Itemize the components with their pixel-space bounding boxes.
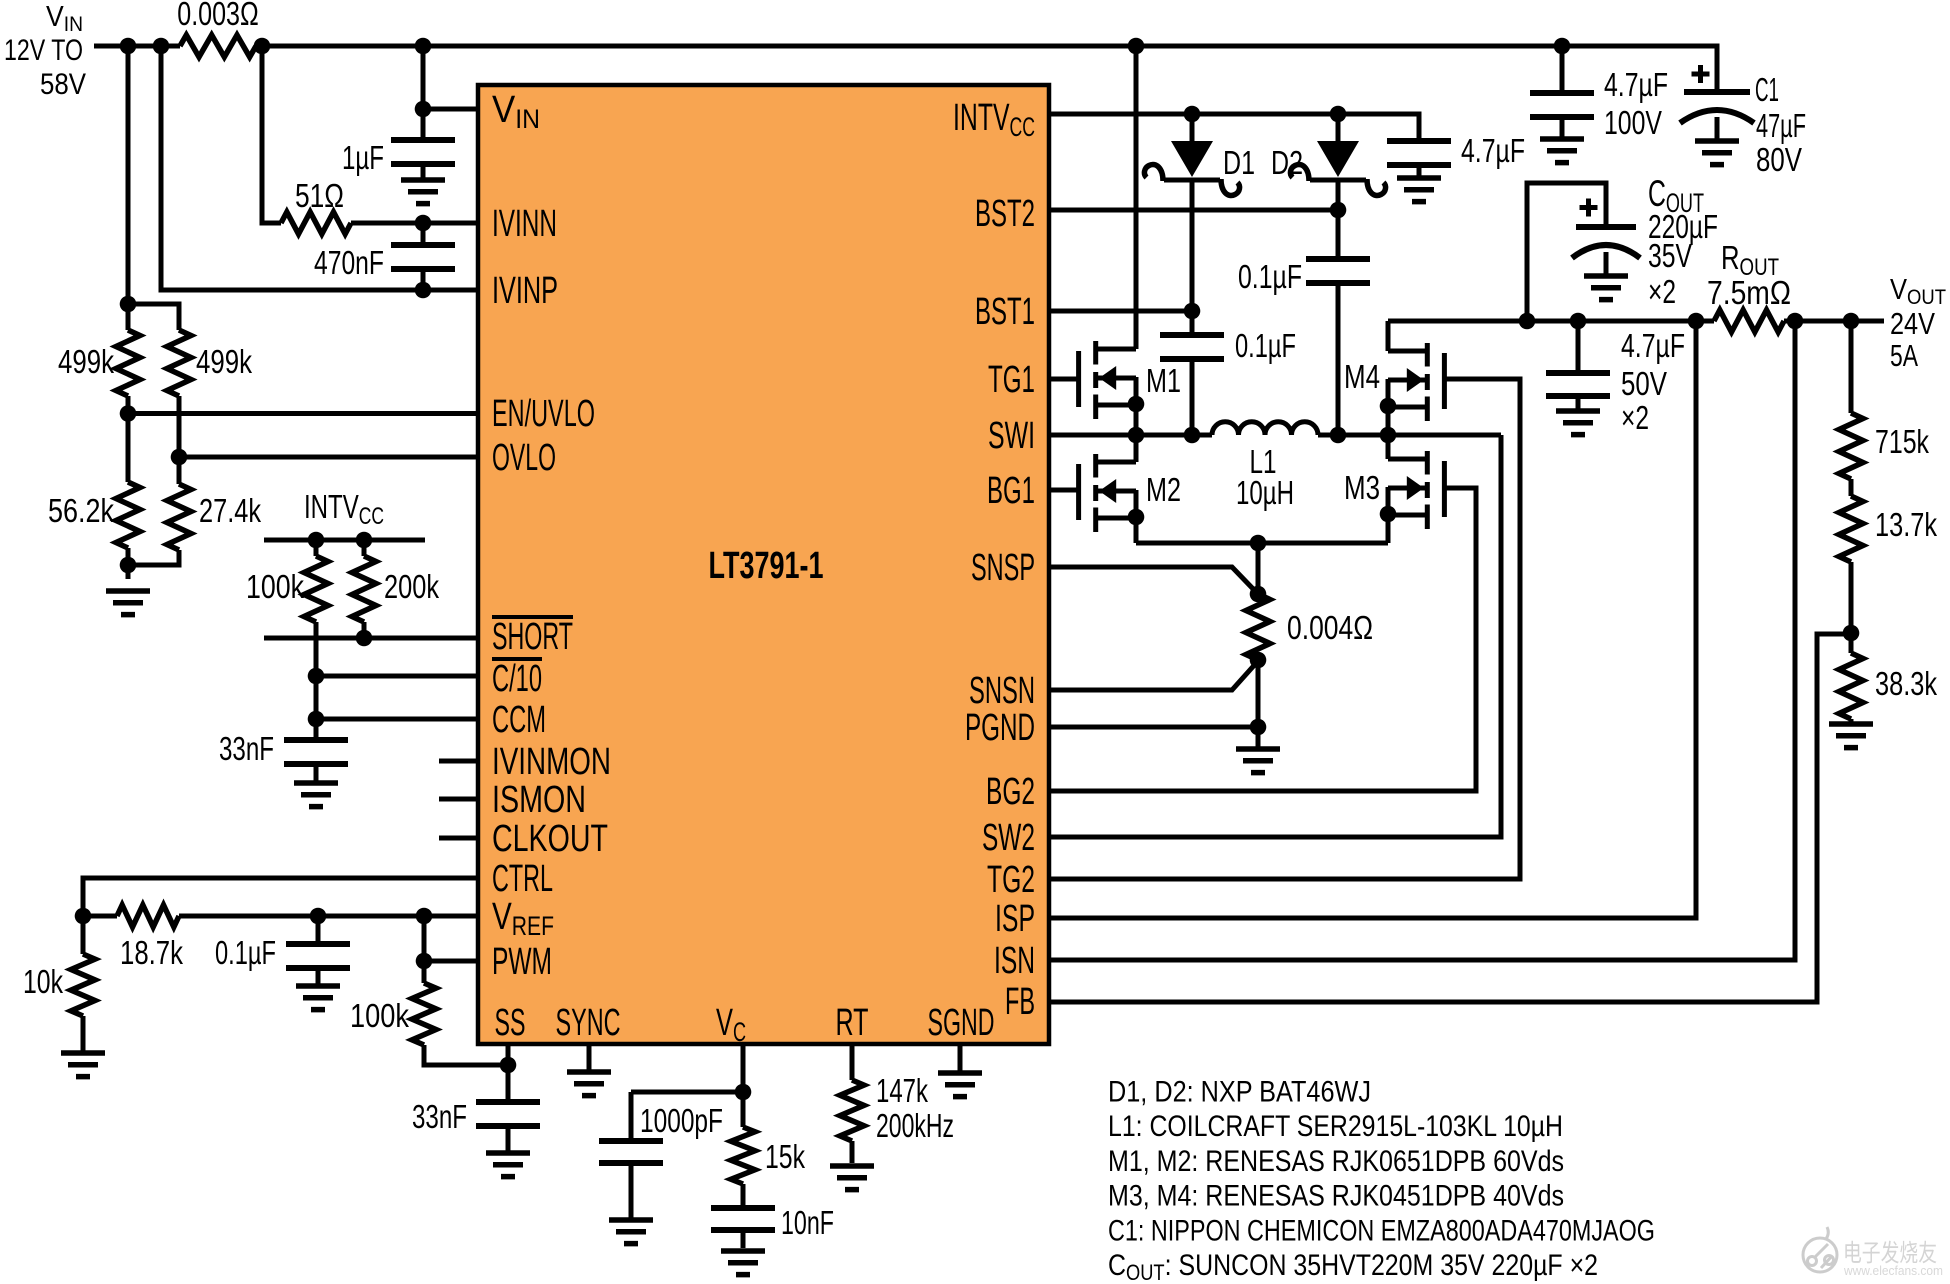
svg-text:499k: 499k xyxy=(196,343,252,380)
svg-text:M3, M4: RENESAS RJK0451DPB 40V: M3, M4: RENESAS RJK0451DPB 40Vds xyxy=(1108,1180,1564,1213)
svg-text:33nF: 33nF xyxy=(412,1098,467,1135)
svg-text:BST1: BST1 xyxy=(975,291,1035,333)
svg-text:ISP: ISP xyxy=(995,898,1035,940)
svg-text:0.1µF: 0.1µF xyxy=(215,934,276,971)
svg-text:BST2: BST2 xyxy=(975,193,1035,235)
svg-text:BG2: BG2 xyxy=(986,771,1035,813)
svg-text:L1: COILCRAFT SER2915L-103KL 1: L1: COILCRAFT SER2915L-103KL 10µH xyxy=(1108,1110,1563,1143)
svg-text:5A: 5A xyxy=(1890,338,1918,373)
svg-text:D2: D2 xyxy=(1271,144,1303,181)
svg-text:56.2k: 56.2k xyxy=(48,492,114,529)
svg-text:SYNC: SYNC xyxy=(556,1002,621,1044)
svg-text:COUT​: SUNCON 35HVT220M 35V 22: COUT​: SUNCON 35HVT220M 35V 220µF ×2 xyxy=(1108,1249,1598,1284)
svg-text:10nF: 10nF xyxy=(781,1204,834,1241)
svg-text:M4: M4 xyxy=(1344,358,1380,395)
svg-text:10µH: 10µH xyxy=(1236,474,1294,511)
svg-text:4.7µF: 4.7µF xyxy=(1461,132,1525,169)
svg-text:715k: 715k xyxy=(1875,423,1929,460)
svg-text:35V: 35V xyxy=(1648,237,1692,274)
svg-text:www.elecfans.com: www.elecfans.com xyxy=(1843,1263,1943,1278)
svg-text:SW2: SW2 xyxy=(982,817,1035,859)
svg-text:12V TO: 12V TO xyxy=(4,34,83,67)
svg-text:200kHz: 200kHz xyxy=(876,1107,954,1144)
svg-text:SNSP: SNSP xyxy=(971,547,1035,589)
svg-text:7.5mΩ: 7.5mΩ xyxy=(1707,274,1791,311)
svg-text:100V: 100V xyxy=(1604,104,1662,141)
svg-text:C1: NIPPON CHEMICON EMZA800ADA: C1: NIPPON CHEMICON EMZA800ADA470MJAOG xyxy=(1108,1214,1655,1247)
svg-text:IVINP: IVINP xyxy=(492,270,558,312)
svg-text:1000pF: 1000pF xyxy=(640,1102,723,1139)
svg-text:15k: 15k xyxy=(765,1138,805,1175)
svg-text:M2: M2 xyxy=(1146,471,1181,508)
svg-text:CCM: CCM xyxy=(492,699,546,741)
svg-text:FB: FB xyxy=(1005,981,1035,1023)
svg-text:TG1: TG1 xyxy=(988,359,1035,401)
svg-text:OVLO: OVLO xyxy=(492,437,556,479)
svg-text:C1: C1 xyxy=(1755,71,1779,108)
svg-text:SS: SS xyxy=(495,1002,526,1044)
svg-text:0.1µF: 0.1µF xyxy=(1235,327,1296,364)
svg-text:10k: 10k xyxy=(23,963,63,1000)
svg-text:RT: RT xyxy=(836,1002,869,1044)
svg-text:200k: 200k xyxy=(384,568,439,605)
svg-text:1µF: 1µF xyxy=(342,139,384,176)
svg-text:CLKOUT: CLKOUT xyxy=(492,818,608,860)
svg-text:33nF: 33nF xyxy=(219,730,274,767)
svg-text:147k: 147k xyxy=(876,1072,928,1109)
svg-text:51Ω: 51Ω xyxy=(295,177,344,214)
svg-text:18.7k: 18.7k xyxy=(120,934,183,971)
svg-text:LT3791-1: LT3791-1 xyxy=(709,545,824,587)
svg-text:47µF: 47µF xyxy=(1756,107,1806,144)
svg-text:PGND: PGND xyxy=(965,707,1035,749)
svg-text:ISMON: ISMON xyxy=(492,779,586,821)
svg-text:IVINMON: IVINMON xyxy=(492,741,611,783)
svg-text:BG1: BG1 xyxy=(987,470,1035,512)
svg-text:D1: D1 xyxy=(1223,144,1255,181)
svg-text:SGND: SGND xyxy=(928,1002,995,1044)
svg-text:EN/UVLO: EN/UVLO xyxy=(492,393,595,435)
svg-text:M3: M3 xyxy=(1344,469,1380,506)
svg-text:0.003Ω: 0.003Ω xyxy=(177,0,259,32)
svg-text:C/10: C/10 xyxy=(492,658,542,700)
svg-text:D1, D2: NXP BAT46WJ: D1, D2: NXP BAT46WJ xyxy=(1108,1076,1371,1109)
svg-text:ISN: ISN xyxy=(994,940,1035,982)
svg-text:499k: 499k xyxy=(58,343,114,380)
svg-text:0.1µF: 0.1µF xyxy=(1238,258,1302,295)
svg-text:38.3k: 38.3k xyxy=(1875,665,1937,702)
svg-text:24V: 24V xyxy=(1890,306,1935,341)
svg-text:×2: ×2 xyxy=(1621,399,1649,436)
svg-text:470nF: 470nF xyxy=(314,244,384,281)
svg-text:58V: 58V xyxy=(40,68,86,101)
svg-text:13.7k: 13.7k xyxy=(1875,506,1937,543)
svg-text:CTRL: CTRL xyxy=(492,858,553,900)
svg-text:SHORT: SHORT xyxy=(492,616,573,658)
svg-text:4.7µF: 4.7µF xyxy=(1604,66,1668,103)
svg-text:100k: 100k xyxy=(246,568,304,605)
svg-text:80V: 80V xyxy=(1756,141,1802,178)
svg-text:27.4k: 27.4k xyxy=(199,492,261,529)
svg-text:×2: ×2 xyxy=(1648,273,1676,310)
svg-text:SNSN: SNSN xyxy=(969,670,1035,712)
svg-text:PWM: PWM xyxy=(492,941,552,983)
svg-text:TG2: TG2 xyxy=(987,859,1035,901)
svg-text:M1: M1 xyxy=(1146,362,1181,399)
svg-text:4.7µF: 4.7µF xyxy=(1621,327,1685,364)
svg-text:IVINN: IVINN xyxy=(492,203,557,245)
svg-text:M1, M2: RENESAS RJK0651DPB 60V: M1, M2: RENESAS RJK0651DPB 60Vds xyxy=(1108,1145,1564,1178)
svg-text:50V: 50V xyxy=(1621,365,1667,402)
svg-text:100k: 100k xyxy=(350,997,409,1034)
svg-text:SWI: SWI xyxy=(988,415,1035,457)
svg-text:0.004Ω: 0.004Ω xyxy=(1287,609,1373,646)
